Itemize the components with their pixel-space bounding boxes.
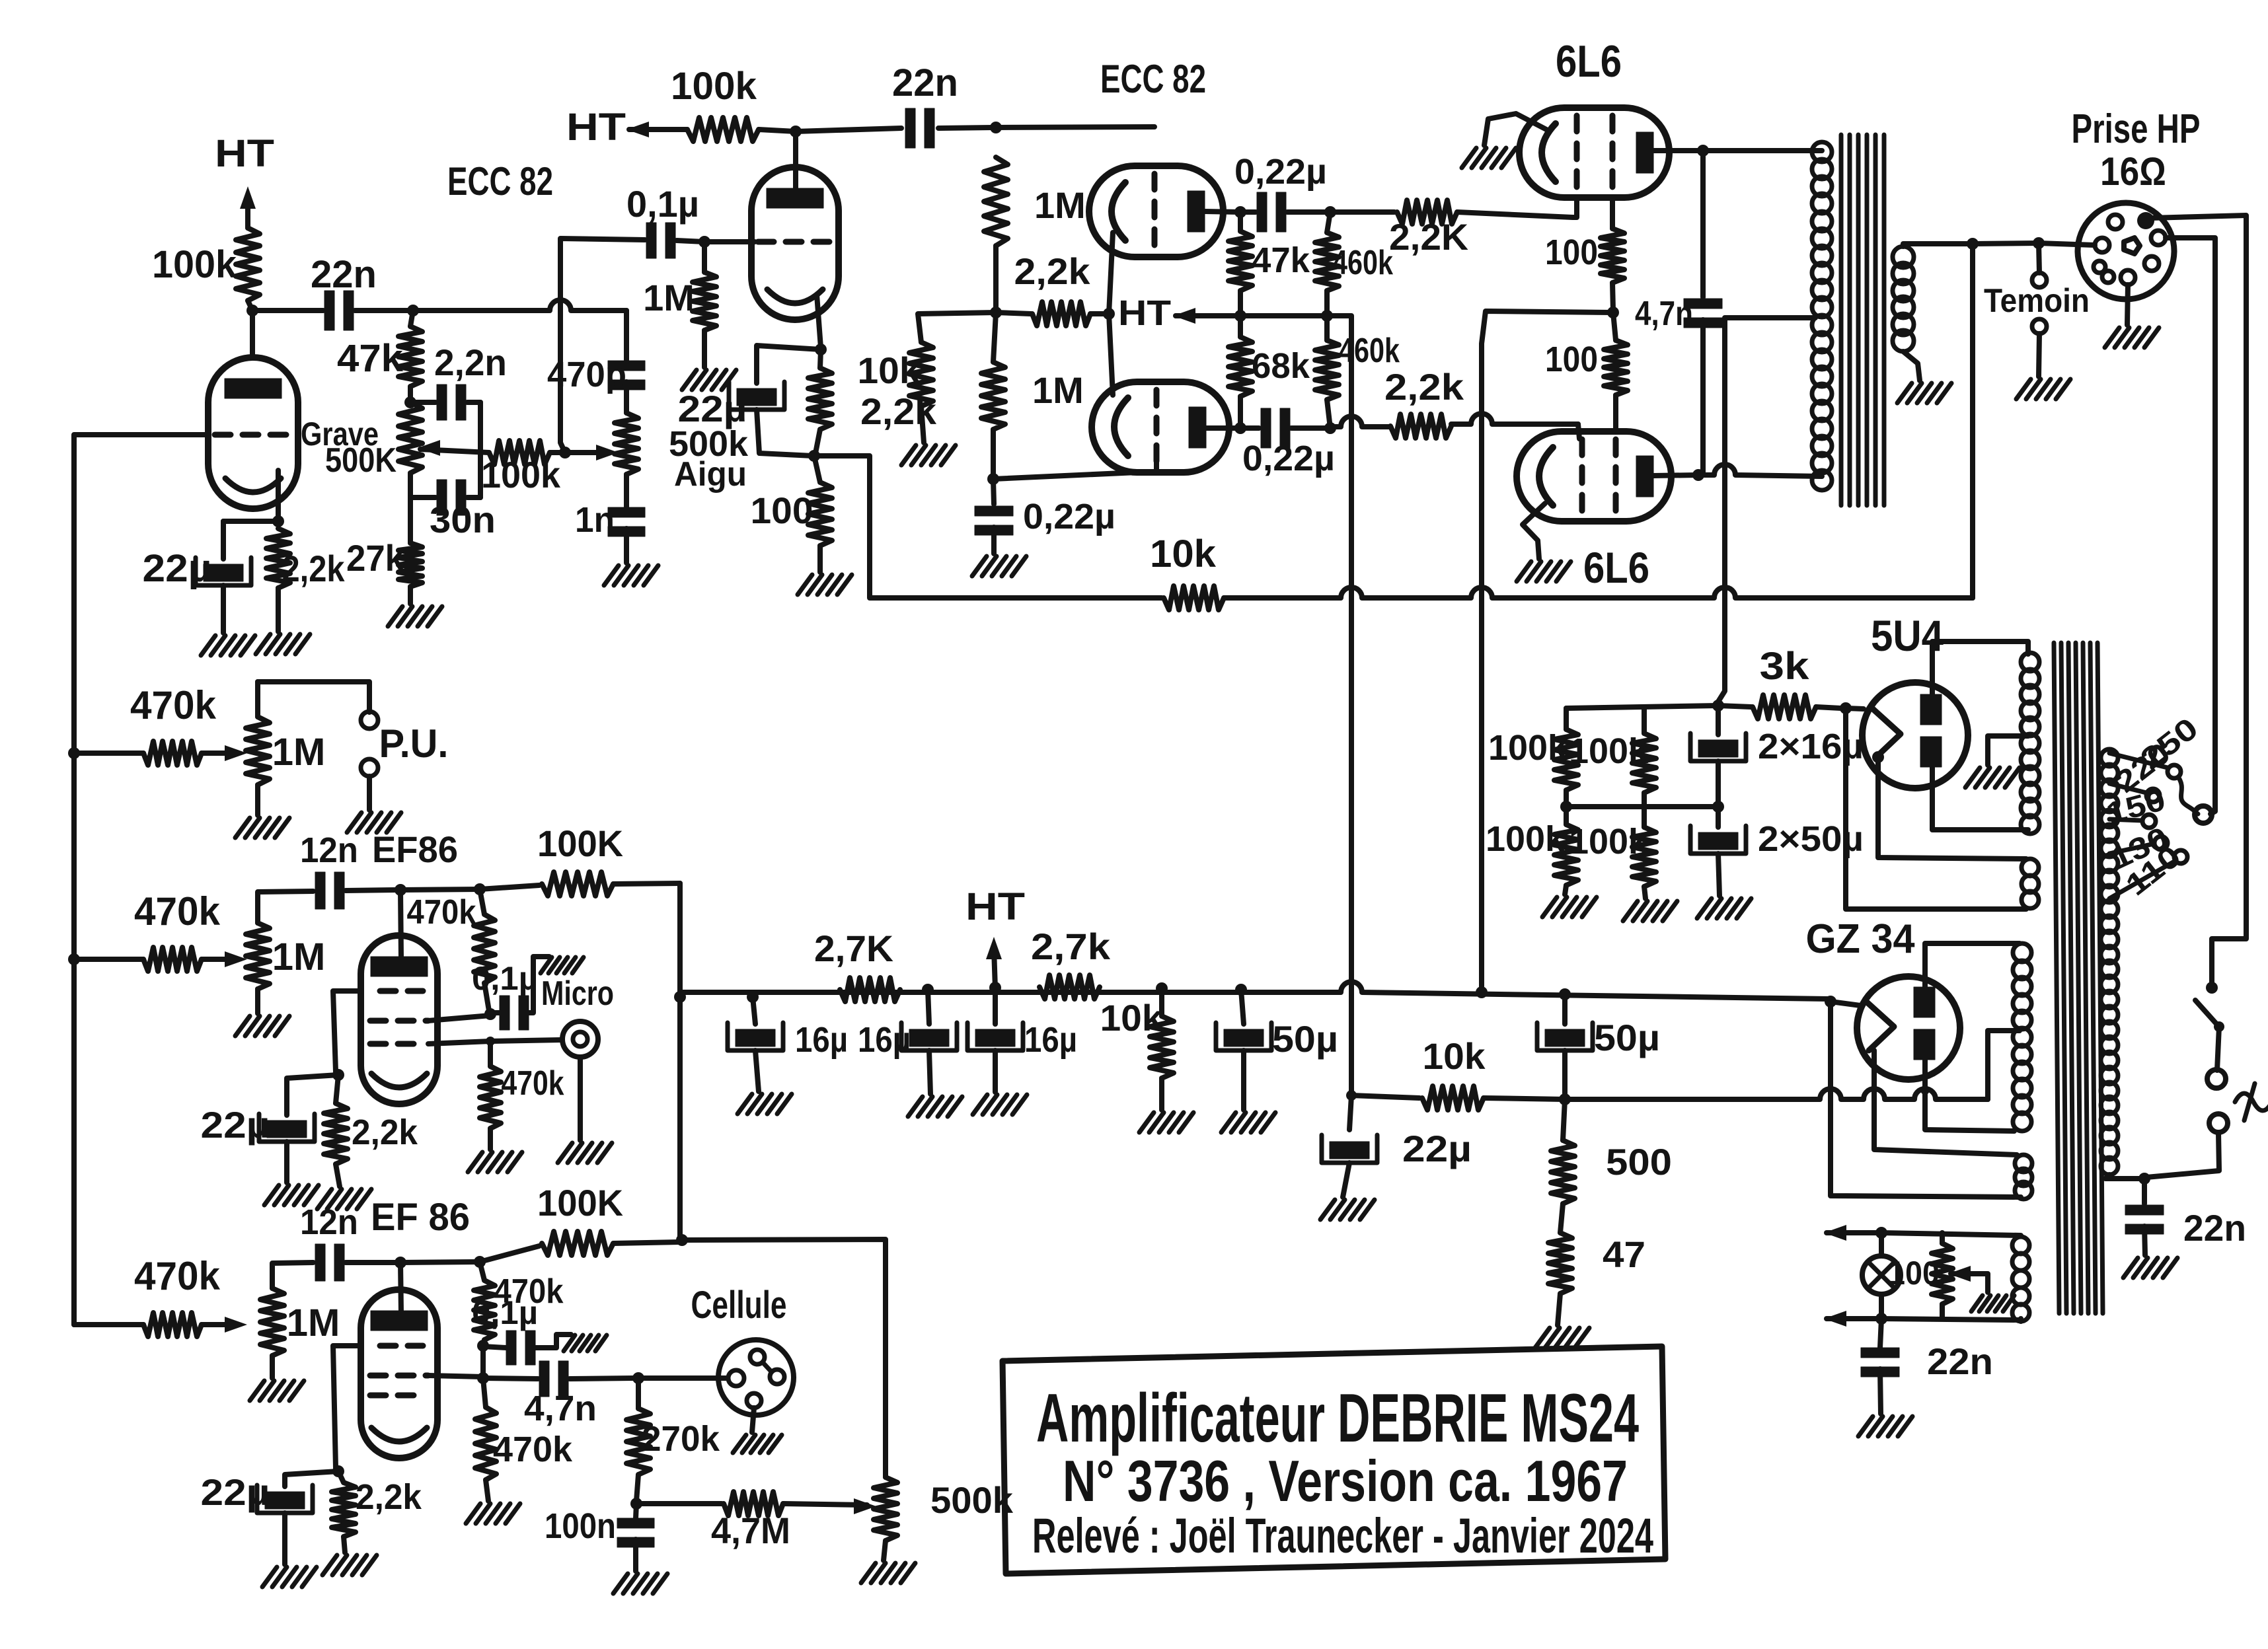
svg-text:ECC 82: ECC 82	[447, 159, 553, 203]
ground micro jack	[558, 1057, 612, 1163]
node PS bias	[990, 307, 1002, 318]
resistor 2,2k (V1a cathode)	[266, 529, 345, 589]
ground P.U. jack	[347, 776, 401, 832]
svg-text:30n: 30n	[430, 499, 496, 540]
node phase splitter grid	[990, 122, 1002, 133]
svg-text:0,22µ: 0,22µ	[1023, 497, 1115, 536]
wire secondary bottom	[1903, 351, 1920, 381]
arrow heater top	[1824, 1225, 1881, 1241]
wire bias left	[918, 312, 996, 342]
svg-text:12n: 12n	[300, 830, 358, 870]
svg-text:470k: 470k	[134, 1254, 221, 1298]
tap 250	[2109, 711, 2205, 778]
tube ECC82 PS upper	[1089, 166, 1223, 257]
tube GZ34	[1857, 976, 1960, 1080]
ground 22µ V1a	[201, 585, 255, 655]
label Cellule	[691, 1284, 787, 1327]
wire 6L6a anode	[1653, 148, 1700, 153]
svg-text:100: 100	[751, 490, 813, 531]
svg-text:270k: 270k	[642, 1419, 720, 1459]
connector switch lower	[2209, 1114, 2228, 1132]
ground 0,1µ EF86a	[541, 957, 584, 973]
svg-text:100K: 100K	[537, 823, 623, 864]
wire V1b anode	[793, 131, 798, 196]
svg-text:Temoin: Temoin	[1984, 282, 2090, 319]
transformer PT 6,3V winding	[2012, 1237, 2029, 1321]
pin socket 4	[2095, 238, 2109, 252]
node B+ PS	[1321, 310, 1333, 322]
node input junction 1	[68, 747, 80, 759]
connector Micro jack	[490, 1021, 598, 1057]
ground 10k filter	[1139, 1113, 1193, 1132]
svg-text:2×16µ: 2×16µ	[1758, 727, 1864, 766]
node mains 22n	[2138, 1173, 2150, 1185]
wire bleeder mid	[1566, 804, 1718, 809]
wire NFB long	[1224, 246, 1973, 598]
resistor 2,2k (EF86a cathode)	[324, 1075, 418, 1187]
transformer PT core	[2054, 643, 2103, 1313]
svg-text:Relevé : Joël Traunecker - Jan: Relevé : Joël Traunecker - Janvier 2024	[1032, 1508, 1653, 1563]
resistor 470k (P.U. input)	[74, 683, 235, 765]
title line 3	[1032, 1508, 1653, 1563]
wire aigu wiper arrow	[596, 445, 619, 460]
capacitor 50µ (filter 2)	[1537, 994, 1660, 1097]
wire tone mid up to 0,1µ	[560, 238, 645, 453]
ground 0,1µ EF86b	[564, 1335, 607, 1351]
wire heater top	[1881, 1233, 2021, 1235]
wire pot wiper arrow	[225, 745, 247, 761]
svg-text:10k: 10k	[1100, 997, 1164, 1039]
potentiometer 1M (micro volume)	[246, 923, 325, 989]
pin socket 5	[2094, 261, 2105, 273]
svg-text:100k: 100k	[152, 243, 237, 286]
resistor 500 (hum balance)	[1551, 1099, 1672, 1204]
svg-text:Aigu: Aigu	[674, 455, 747, 494]
capacitor 22µ (V1a cathode)	[143, 521, 252, 590]
svg-text:22µ: 22µ	[201, 1471, 270, 1513]
svg-text:16µ: 16µ	[1024, 1020, 1077, 1060]
capacitor 0,22µ (PS)	[975, 479, 1115, 554]
svg-text:500k: 500k	[930, 1479, 1014, 1521]
wire 6L6a screen	[1610, 198, 1615, 229]
wire pot top to 12n 2	[272, 1263, 313, 1288]
svg-text:22µ: 22µ	[143, 547, 212, 590]
svg-text:27k: 27k	[346, 537, 405, 579]
resistor 3k (rectifier)	[1718, 645, 1841, 719]
ground 10k PS	[901, 445, 956, 465]
svg-text:2×50µ: 2×50µ	[1758, 819, 1864, 859]
connector Temoin upper	[2032, 243, 2047, 287]
wire wire to GZ34	[1831, 1002, 1860, 1006]
resistor 470k (EF86b screen)	[474, 1262, 564, 1344]
lamp pilot	[1862, 1233, 1901, 1294]
svg-text:1M: 1M	[287, 1301, 340, 1344]
tube 6L6 lower	[1517, 431, 1671, 521]
title line 2	[1063, 1448, 1628, 1514]
node input junction 2	[68, 953, 80, 965]
capacitor 22µ (V1b cathode)	[678, 346, 821, 456]
ground 100n	[613, 1574, 667, 1594]
svg-text:Cellule: Cellule	[691, 1284, 787, 1327]
ground Temoin	[2016, 379, 2070, 399]
node 16µ3 top	[989, 982, 1001, 994]
resistor 470k (micro input)	[74, 889, 235, 971]
tap 130	[2105, 820, 2173, 876]
resistor 2,2K (6L6a grid stopper)	[1330, 199, 1577, 258]
wire tone top	[413, 300, 626, 360]
node screens	[1607, 307, 1619, 318]
resistor 100 (V1b cathode)	[751, 456, 833, 572]
connector Cellule socket	[718, 1340, 794, 1415]
capacitor 2x50µ (reservoir)	[1690, 807, 1864, 896]
tube ECC82 V1b	[751, 167, 839, 320]
svg-text:100k: 100k	[481, 454, 561, 495]
node temoin	[2033, 237, 2045, 249]
node 6L6a grid R	[1324, 206, 1336, 218]
wire screens feed	[1482, 311, 1613, 992]
capacitor 0,22µ (lower coupling)	[1240, 408, 1335, 478]
svg-text:10k: 10k	[1150, 532, 1217, 575]
resistor 460k (upper)	[1315, 212, 1393, 316]
svg-text:2,2K: 2,2K	[1389, 216, 1468, 258]
label A mains	[2235, 1083, 2268, 1120]
wire GZ34 anode 2	[1925, 1060, 2014, 1131]
arrow HT up mid	[965, 885, 1025, 988]
node V1b grid	[699, 236, 710, 248]
ground pot 1M (cellule)	[250, 1356, 304, 1401]
svg-text:16Ω: 16Ω	[2100, 149, 2166, 194]
transformer PT primary	[2101, 749, 2118, 1175]
node 6L6b anode	[1692, 469, 1704, 481]
resistor 10k (PS divider)	[858, 342, 934, 443]
ground 2,2k V1a	[256, 588, 310, 654]
pin socket 2 (live)	[2137, 212, 2154, 229]
transformer PT GZ34 HV winding	[2013, 943, 2031, 1131]
ground 16µ 1	[737, 1094, 792, 1114]
resistor 470k (micro grid)	[480, 1041, 564, 1150]
connector switch upper	[2207, 1070, 2226, 1088]
svg-text:22n: 22n	[892, 61, 958, 104]
resistor 2,2k (6L6b grid stopper)	[1330, 366, 1579, 439]
svg-text:EF86: EF86	[372, 828, 458, 870]
wire pot wiper arrow 3	[225, 1317, 247, 1333]
svg-text:GZ 34: GZ 34	[1806, 916, 1915, 962]
node switch top	[2206, 982, 2218, 994]
node screens wire 1	[747, 991, 759, 1003]
wire PS lower anode	[1205, 425, 1240, 431]
ground 27k	[388, 606, 442, 626]
resistor 47k (PS upper)	[1228, 212, 1310, 316]
resistor 100k (bleeder C)	[1486, 807, 1578, 895]
connector P.U. sleeve	[361, 759, 378, 776]
wire socket pin7 ground	[2105, 285, 2159, 348]
node 6L6a anode	[1697, 145, 1709, 157]
svg-text:16µ: 16µ	[858, 1020, 911, 1060]
svg-text:2,2k: 2,2k	[282, 548, 346, 589]
svg-text:22n: 22n	[311, 253, 377, 296]
svg-text:22n: 22n	[1927, 1340, 1993, 1382]
svg-text:4,7n: 4,7n	[524, 1389, 597, 1428]
svg-text:500: 500	[1606, 1141, 1672, 1183]
node PS lower grid	[987, 473, 999, 485]
wire screen to tube	[428, 1015, 490, 1021]
resistor 100k (V1b anode load)	[671, 65, 796, 141]
node cellule junction	[632, 1372, 644, 1384]
svg-text:12n: 12n	[300, 1202, 358, 1242]
ground OPT secondary	[1897, 383, 1951, 403]
tube ECC82 V1a	[208, 357, 298, 509]
ground 5U4 HV centre tap	[1965, 736, 2028, 788]
svg-text:100k: 100k	[1569, 731, 1649, 771]
node 50µ2 bottom	[1559, 1093, 1571, 1105]
wire EF86b grid return	[333, 1346, 361, 1468]
title box frame	[1002, 1346, 1665, 1574]
node GZ34 cathode node	[1825, 996, 1836, 1008]
resistor 100 (6L6b screen)	[1545, 312, 1628, 431]
wire socket to secondary	[2039, 243, 2095, 245]
wire 5U4 anode 1	[1932, 641, 2028, 694]
node 10k filter top	[1156, 982, 1168, 994]
svg-text:16µ: 16µ	[795, 1020, 848, 1060]
wire EF86a anode	[400, 890, 401, 958]
svg-text:4,7n: 4,7n	[1635, 295, 1693, 333]
svg-text:470k: 470k	[493, 1430, 573, 1469]
ground hum pot	[1971, 1296, 2014, 1311]
ground 50µ 1	[1221, 1113, 1275, 1132]
wire socket live down	[2150, 215, 2246, 986]
resistor 470k (cellule grid)	[475, 1378, 573, 1501]
potentiometer 500k (cellule)	[874, 1477, 1014, 1560]
ground 16µ 2	[908, 1097, 962, 1117]
resistor 470k (cellule input)	[74, 1254, 235, 1337]
node EF86a cathode	[332, 1069, 344, 1081]
resistor 68k (PS lower)	[1228, 316, 1310, 428]
node PS HT	[1234, 310, 1246, 322]
svg-text:470k: 470k	[134, 889, 221, 934]
wire PS HT link	[1240, 313, 1327, 318]
svg-text:2,2k: 2,2k	[1014, 250, 1091, 292]
capacitor 12n (micro coupling)	[300, 830, 397, 909]
svg-text:1M: 1M	[272, 935, 326, 978]
svg-text:1M: 1M	[643, 277, 695, 318]
node EF86b anode	[395, 1257, 406, 1268]
switch mains blade	[2195, 1000, 2224, 1070]
svg-text:0,1µ: 0,1µ	[472, 960, 538, 997]
resistor 4,7M (cellule)	[636, 1492, 867, 1551]
ground bleeder C	[1542, 897, 1597, 917]
wire pot top to 12n	[258, 891, 313, 923]
resistor 10k (screen filter)	[1351, 1035, 1565, 1110]
transformer output primary	[1812, 142, 1832, 490]
wire screen to tube b	[428, 1375, 483, 1377]
ground 1n	[604, 566, 658, 585]
wire 3k to tube	[1846, 708, 1864, 709]
svg-text:N° 3736 , Version ca. 1967: N° 3736 , Version ca. 1967	[1063, 1448, 1628, 1514]
ground 100 V1b	[798, 575, 852, 595]
pin socket key	[2124, 238, 2140, 254]
resistor 27k (tone)	[346, 497, 422, 604]
svg-text:HT: HT	[566, 106, 626, 149]
node HT takeoff	[922, 984, 934, 996]
wire 6L6a cathode	[1484, 114, 1546, 145]
node V1 bottom	[1346, 1090, 1357, 1101]
wire grid to tube	[704, 239, 755, 244]
svg-text:Micro: Micro	[541, 974, 614, 1013]
svg-text:10k: 10k	[1423, 1035, 1486, 1077]
wire grid wire top	[996, 127, 1154, 128]
node PS cathode	[1103, 308, 1115, 320]
pin socket 3	[2151, 231, 2166, 245]
label 6L6 (lower)	[1583, 543, 1649, 592]
wire anode to tube	[250, 311, 255, 357]
svg-text:2,2k: 2,2k	[1384, 366, 1464, 408]
svg-text:6L6: 6L6	[1556, 36, 1622, 87]
node V1b cathode	[815, 344, 827, 355]
svg-text:100: 100	[1545, 340, 1598, 379]
svg-text:P.U.: P.U.	[379, 721, 449, 766]
svg-text:2,2n: 2,2n	[434, 342, 507, 383]
node PS upper anode	[1234, 206, 1246, 218]
capacitor 16µ (filter 2)	[858, 990, 957, 1094]
svg-text:100: 100	[1888, 1255, 1940, 1292]
transformer output secondary	[1893, 246, 1914, 351]
ground 6L6a cathode	[1462, 148, 1516, 168]
resistor 2,7K (filter)	[814, 928, 900, 1002]
node PS lower anode	[1234, 422, 1246, 434]
tap 150	[2103, 782, 2169, 831]
resistor 2,7k (filter 2)	[1031, 926, 1111, 999]
node heater top	[1875, 1227, 1887, 1239]
resistor 10k (feedback)	[1150, 532, 1224, 610]
connector Temoin lower	[2032, 319, 2047, 377]
capacitor 22n (mains right)	[2125, 1179, 2246, 1255]
title line 1	[1036, 1380, 1639, 1457]
wire 5U4 B+ leg	[1846, 708, 2026, 909]
node EF86b screen	[477, 1340, 489, 1352]
wire 6L6b cathode	[1523, 503, 1545, 559]
resistor 2,2k (PS tail upper)	[996, 250, 1105, 326]
svg-text:0,1µ: 0,1µ	[626, 183, 699, 225]
node B+ rail start	[674, 991, 686, 1003]
label HT (PS)	[1118, 293, 1171, 333]
svg-text:100K: 100K	[537, 1182, 623, 1224]
wire pot wiper arrow 2	[225, 951, 247, 967]
resistor 100K (EF86a load)	[480, 823, 680, 896]
transformer PT HV winding	[2021, 653, 2039, 834]
capacitor 0,1µ (to V1b grid)	[626, 183, 704, 258]
ground 22n mains	[2123, 1258, 2177, 1278]
ground 22µ screen	[1320, 1200, 1375, 1220]
transformer PT GZ34 5V winding	[2015, 1155, 2032, 1199]
ground 22µ EF86b	[262, 1567, 317, 1587]
capacitor 2,2n (tone)	[410, 342, 507, 453]
wire EF86a grid return	[333, 991, 361, 1072]
svg-text:0,1µ: 0,1µ	[472, 1294, 538, 1331]
svg-text:0,22µ: 0,22µ	[1234, 152, 1327, 192]
potentiometer 1M (cellule volume)	[260, 1288, 340, 1356]
label EF 86 (cellule)	[371, 1196, 470, 1239]
svg-text:100k: 100k	[1488, 728, 1568, 768]
resistor 100 (6L6a screen)	[1545, 229, 1624, 311]
svg-text:470k: 470k	[130, 683, 217, 727]
capacitor 30n (tone)	[410, 455, 496, 540]
resistor 2,2k (EF86b cathode)	[332, 1471, 422, 1553]
svg-text:22µ: 22µ	[201, 1104, 270, 1146]
wire 5U4 filament	[1878, 757, 2026, 859]
capacitor 22µ (screen node)	[1322, 1095, 1472, 1197]
resistor 1M (PS upper grid leak)	[984, 157, 1086, 312]
capacitor 0,1µ (EF86a screen)	[472, 957, 549, 1030]
capacitor 12n (cellule coupling)	[300, 1202, 397, 1281]
node 6L6b grid R	[1324, 422, 1336, 434]
wire anode to OPT	[1703, 148, 1822, 153]
wire node to OPT	[1973, 243, 2039, 244]
svg-text:470k: 470k	[407, 893, 476, 932]
ground 1M V1b	[682, 370, 736, 390]
capacitor 22n (V1a coupling)	[252, 253, 413, 330]
label 16 ohms	[2100, 149, 2166, 194]
resistor 47k (tone)	[337, 311, 422, 402]
wire PS cathodes	[1109, 233, 1113, 395]
label EF86 (micro)	[372, 828, 458, 870]
svg-text:HT: HT	[215, 132, 274, 175]
potentiometer 100 (hum)	[1888, 1233, 1953, 1319]
node B+ reservoir	[1712, 700, 1724, 712]
node screens wire 2	[1559, 988, 1571, 1000]
svg-text:100n: 100n	[545, 1506, 616, 1546]
capacitor 4,7n (anode-anode)	[1635, 151, 1722, 473]
wire B+ riser	[1327, 316, 1351, 1095]
svg-text:470p: 470p	[547, 355, 626, 394]
node EF86b cathode	[332, 1465, 344, 1477]
resistor 47 (hum balance)	[1548, 1204, 1645, 1325]
resistor 100k (tone mid)	[481, 441, 607, 495]
label ECC 82 (first)	[447, 159, 553, 203]
tap 220	[2109, 735, 2177, 802]
svg-text:4,7M: 4,7M	[711, 1510, 790, 1551]
arrow HT left	[626, 122, 687, 137]
label Prise HP	[2072, 106, 2201, 152]
svg-text:Amplificateur DEBRIE MS24: Amplificateur DEBRIE MS24	[1036, 1380, 1639, 1457]
pin socket 1	[2108, 215, 2123, 229]
wire GZ34 B+ leg	[1831, 1002, 2021, 1197]
ground 0,22µ PS	[972, 556, 1026, 576]
node EF86a screen	[484, 1008, 496, 1020]
wire NFB from cathode	[814, 456, 1162, 598]
ground 22n heater	[1858, 1416, 1912, 1436]
resistor 100k (bleeder B)	[1569, 708, 1656, 807]
wire lamp bottom	[1879, 1294, 1884, 1317]
ground pot 1M (micro)	[235, 989, 289, 1036]
ground 22µ EF86a	[264, 1185, 319, 1205]
svg-text:47k: 47k	[337, 337, 404, 380]
svg-text:2,2k: 2,2k	[352, 1113, 418, 1152]
resistor 2,2k (V1b cathode)	[808, 349, 937, 453]
wire to cellule jack	[638, 1375, 726, 1381]
wire PS upper anode	[1205, 211, 1240, 212]
svg-text:460k: 460k	[1332, 244, 1393, 282]
svg-text:HT: HT	[965, 885, 1025, 928]
ground 470k micro	[468, 1152, 522, 1172]
wire pot top to P.U. jack	[258, 682, 369, 712]
node V1b anode top	[790, 126, 802, 137]
wire V1a cathode	[223, 470, 284, 527]
resistor 460k (lower)	[1315, 316, 1400, 428]
tube 6L6 upper	[1519, 108, 1669, 198]
wire EF86b anode	[400, 1263, 401, 1313]
potentiometer 500K Grave	[301, 402, 422, 480]
svg-text:EF 86: EF 86	[371, 1196, 470, 1239]
